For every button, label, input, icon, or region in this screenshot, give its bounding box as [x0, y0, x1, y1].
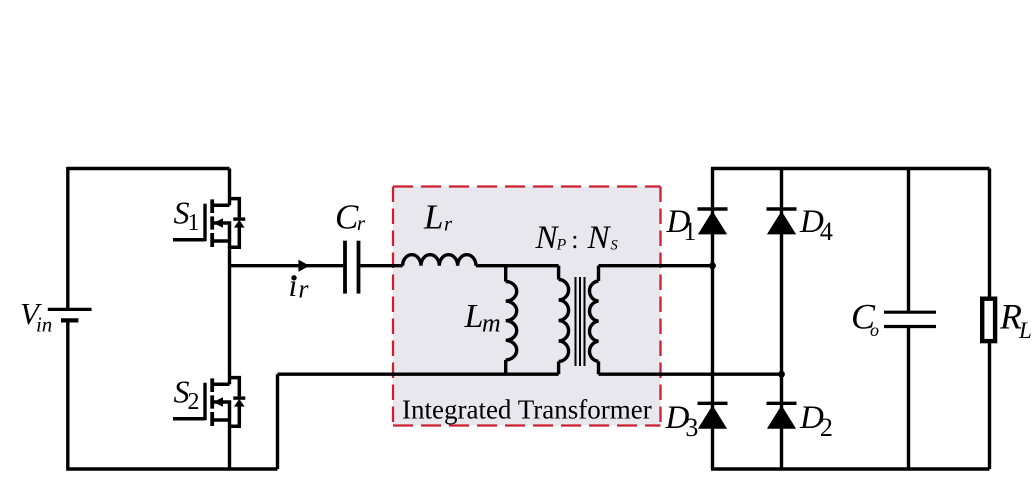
capacitor Cr [345, 241, 359, 294]
wire Co upper [907, 169, 910, 311]
node junction dot bottom [778, 371, 785, 378]
wire S1 source to S2 drain [228, 241, 231, 384]
capacitor Co [884, 312, 936, 326]
diode D4 [767, 209, 797, 234]
transistor S1 [173, 199, 245, 248]
wire left rail upper (Vin +) [66, 167, 69, 308]
wire secondary bottom to bridge [599, 373, 782, 376]
transformer primary winding [559, 266, 569, 375]
wire bridge bottom rail [711, 467, 990, 470]
diode D1 [698, 209, 728, 234]
node junction dot top [709, 262, 716, 269]
wire Cr to Lr [360, 264, 402, 267]
integrated transformer dashed border [393, 187, 661, 426]
svg-text:NP:NS: NP:NS [535, 220, 619, 256]
wire Co lower [907, 328, 910, 469]
wire left rail lower [66, 322, 69, 469]
battery Vin [48, 309, 92, 320]
transistor S2 [173, 378, 245, 427]
wire RL lower [988, 343, 991, 469]
wire RL upper [988, 169, 991, 297]
wire return vertical [276, 374, 279, 469]
wire S2 source to bottom rail [228, 420, 231, 469]
inductor Lr [403, 255, 476, 266]
wire bridge top rail [711, 167, 990, 170]
wire bridge leg1 [711, 169, 714, 470]
wire midpoint to Cr [230, 264, 344, 267]
diode D3 [698, 403, 728, 428]
arrow ir [298, 260, 309, 272]
wire S1 drain vertical [228, 169, 231, 206]
diode D2 [767, 403, 797, 428]
svg-text:Integrated Transformer: Integrated Transformer [402, 395, 652, 425]
resistor RL [982, 299, 995, 341]
transformer core [576, 277, 585, 366]
wire bridge leg2 [780, 169, 783, 470]
wire top-left rail [68, 167, 230, 170]
integrated transformer box fill [393, 187, 661, 426]
svg-text:Co: Co [851, 297, 879, 340]
wire bottom-left rail [66, 467, 277, 470]
wire Lr to primary [476, 264, 559, 267]
wire secondary top to bridge [599, 264, 713, 267]
wire primary bottom [278, 373, 559, 376]
transformer secondary winding [589, 266, 598, 375]
inductor Lm [506, 266, 517, 375]
